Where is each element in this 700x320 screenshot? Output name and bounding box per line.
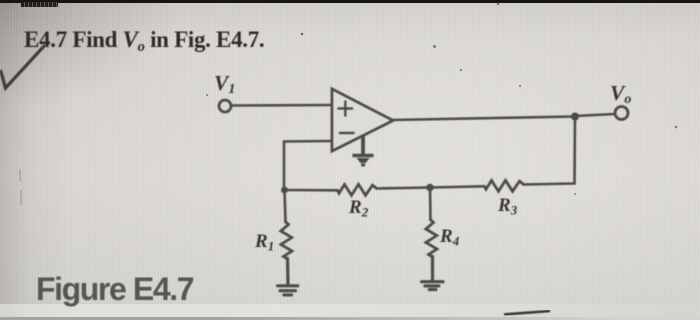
svg-text:E4.7 Find Vo in Fig. E4.7.: E4.7 Find Vo in Fig. E4.7. <box>24 27 264 55</box>
faint margin dashes left <box>20 169 21 205</box>
node A junction dot <box>571 113 579 121</box>
wire op-amp inverting input to feedback node <box>284 141 332 190</box>
ground below R4 <box>422 282 444 290</box>
resistor R4 <box>426 220 437 257</box>
wire R4 to ground <box>431 257 434 281</box>
wire V1 to op-amp + input <box>232 104 333 107</box>
wire op-amp output to node A <box>392 117 575 121</box>
svg-text:V1: V1 <box>214 71 235 97</box>
wire node B to R2 <box>377 188 430 189</box>
stray pen line bottom right <box>504 311 550 315</box>
node feedback junction dot <box>281 187 288 194</box>
svg-text:R3: R3 <box>497 195 518 218</box>
wire node A to Vo terminal <box>575 114 615 116</box>
ground below R1 <box>278 286 298 295</box>
wire R3 right lead <box>524 184 575 185</box>
node Vo terminal <box>615 107 628 120</box>
title: problem statement text <box>24 27 264 55</box>
svg-text:R4: R4 <box>439 226 460 249</box>
checkmark annotation <box>1 45 46 88</box>
figure caption <box>36 271 194 307</box>
svg-text:Vo: Vo <box>610 81 631 107</box>
svg-text:R2: R2 <box>348 197 369 220</box>
resistor R3 <box>485 180 524 191</box>
wire R3 to node B <box>430 186 484 187</box>
node V1 terminal <box>219 100 231 112</box>
wire R1 to ground <box>286 259 290 285</box>
ground below op-amp <box>353 136 374 167</box>
wire R2 to feedback node <box>284 189 337 192</box>
wire feedback node down to R1 <box>285 190 286 222</box>
photo specks <box>206 3 677 195</box>
node B junction dot <box>426 184 434 192</box>
resistor R2 <box>338 184 377 195</box>
resistor R1 <box>281 222 292 259</box>
wire node A down to R3 <box>573 117 576 184</box>
op-amp - input symbol <box>340 132 354 135</box>
op-amp + input symbol <box>339 102 353 116</box>
wire node B down to R4 <box>429 188 432 221</box>
svg-text:R1: R1 <box>254 231 274 254</box>
op-amp U1 <box>332 89 393 151</box>
svg-text:Figure E4.7: Figure E4.7 <box>36 271 194 307</box>
